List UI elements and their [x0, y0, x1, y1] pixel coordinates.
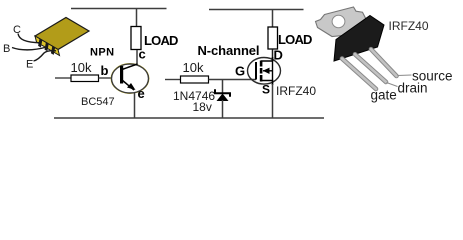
- transistor Q1 collector inner lead: [122, 64, 138, 70]
- svg-text:IRFZ40: IRFZ40: [389, 19, 429, 33]
- svg-text:C: C: [13, 24, 21, 36]
- package pin 1: [38, 38, 42, 47]
- wire LOAD2 drop: [272, 10, 274, 29]
- transistor package TO-92 smd body top face: [35, 18, 89, 50]
- wire C to pin1: [18, 34, 41, 43]
- mosfet M1 channel segment drain: [260, 61, 263, 67]
- resistor R1 10k lead left: [55, 77, 71, 79]
- svg-text:BC547: BC547: [81, 96, 115, 108]
- mosfet M1 internal drain-source line: [272, 57, 274, 85]
- mosfet M1 body arrow: [263, 70, 273, 72]
- wire emitter down: [134, 93, 136, 119]
- package pin 2: [45, 42, 49, 51]
- zener diode D1 cathode bar: [215, 89, 230, 97]
- wire top rail circuit 2: [209, 9, 304, 11]
- svg-text:drain: drain: [398, 81, 428, 96]
- svg-text:c: c: [139, 47, 146, 62]
- wire top rail circuit 1: [71, 8, 167, 10]
- wire drain from LOAD2 to M1: [272, 49, 274, 61]
- svg-text:e: e: [138, 86, 145, 101]
- TO-220 leg 3 source: [371, 49, 397, 76]
- svg-text:S: S: [262, 83, 270, 97]
- package pin 3: [51, 46, 55, 55]
- mosfet M1 channel segment body: [260, 68, 263, 74]
- zener diode D1 triangle: [217, 94, 229, 102]
- svg-text:gate: gate: [371, 88, 397, 103]
- mosfet M1 drain connector: [261, 57, 273, 61]
- wire collector from LOAD1 to Q1: [136, 50, 138, 65]
- wire E to pin3: [34, 51, 57, 61]
- wire B to pin2: [12, 47, 47, 50]
- pointer line source to leg3: [398, 74, 412, 77]
- TO-220 leg 2 drain: [355, 54, 386, 82]
- resistor R1 10k body: [71, 75, 99, 82]
- svg-text:10k: 10k: [71, 60, 92, 75]
- svg-text:E: E: [26, 59, 33, 71]
- svg-text:b: b: [101, 63, 109, 78]
- TO-220 leg 1 gate: [342, 59, 376, 90]
- mosfet M1 IRFZ40 circle: [248, 58, 281, 85]
- load resistor LOAD2 box: [268, 27, 278, 49]
- svg-text:LOAD: LOAD: [278, 32, 312, 47]
- svg-text:18v: 18v: [193, 100, 212, 114]
- mosfet M1 source connector: [261, 81, 273, 86]
- wire base R1 to Q1: [99, 77, 113, 79]
- pointer line drain to leg2: [387, 83, 398, 87]
- transistor Q1 emitter inner lead with arrow: [122, 80, 134, 90]
- TO-220 tab hole: [332, 15, 345, 27]
- svg-text:IRFZ40: IRFZ40: [276, 84, 316, 98]
- svg-text:LOAD: LOAD: [144, 33, 178, 48]
- svg-text:N-channel: N-channel: [198, 43, 260, 58]
- wire source down to rail: [272, 84, 274, 118]
- load resistor LOAD1 box: [131, 27, 141, 50]
- wire zener anode to rail: [222, 100, 224, 118]
- transistor Q1 BC547 circle: [111, 64, 149, 94]
- transistor Q1 base bar: [120, 66, 123, 84]
- wire gate R2 to M1: [209, 79, 257, 81]
- resistor R2 10k body: [181, 76, 209, 83]
- svg-text:G: G: [235, 64, 245, 79]
- svg-text:B: B: [3, 43, 10, 55]
- resistor R2 10k lead left: [165, 79, 181, 81]
- svg-text:10k: 10k: [183, 60, 204, 75]
- svg-text:NPN: NPN: [90, 47, 114, 59]
- mosfet M1 gate bar: [255, 62, 257, 80]
- wire LOAD1 drop: [136, 9, 138, 28]
- TO-220 metal tab: [316, 7, 368, 37]
- wire bottom ground rail: [54, 117, 324, 119]
- TO-220 black body: [334, 16, 384, 62]
- mosfet M1 channel segment source: [260, 75, 263, 82]
- transistor package front edge strip: [35, 36, 60, 56]
- wire zener tap from gate node: [222, 80, 224, 94]
